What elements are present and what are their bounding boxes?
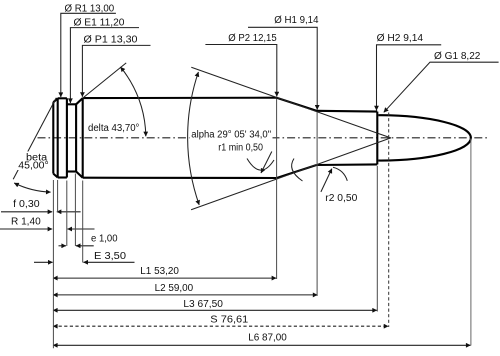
svg-text:45,00°: 45,00° [18,161,48,172]
alpha angle arc [188,72,200,205]
neck bottom [317,163,378,166]
svg-text:L1 53,20: L1 53,20 [140,266,179,277]
rim back face [66,98,68,177]
svg-text:L3 67,50: L3 67,50 [183,299,223,310]
ramp top [76,98,83,104]
L6 dimension [53,344,471,346]
r1 radius arc lower [292,159,303,182]
svg-text:L6 87,00: L6 87,00 [248,332,287,343]
E dimension [34,261,53,263]
svg-text:S 76,61: S 76,61 [210,315,248,326]
mask behind beta label [18,152,51,171]
bevel junction line [57,98,59,177]
ext groove end [74,174,76,247]
e dimension [59,245,67,247]
shoulder bottom [277,165,317,178]
body bottom [83,177,277,179]
svg-text:Ø P1 13,30: Ø P1 13,30 [84,35,138,46]
svg-text:e 1,00: e 1,00 [91,234,118,245]
R dimension [0,228,52,230]
body top [83,97,277,100]
H2 leader [377,45,442,111]
ext body start [82,181,84,263]
groove junction line [75,104,77,171]
bevel bottom [53,174,57,178]
delta angle arc [121,67,146,136]
ext neck start [316,112,318,296]
svg-text:E 3,50: E 3,50 [94,251,126,262]
svg-text:Ø G1 8,22: Ø G1 8,22 [434,51,481,62]
f dimension [1,211,52,213]
svg-text:L2 59,00: L2 59,00 [155,283,194,294]
svg-text:r1 min 0,50: r1 min 0,50 [218,143,263,154]
rim top [58,97,67,99]
ext bevel junction [57,180,59,212]
r2 radius arc [333,167,347,181]
svg-text:delta 43,70°: delta 43,70° [88,123,139,134]
ramp bottom [76,172,83,178]
r1 leader arrow [261,152,272,174]
bullet ogive [378,115,471,160]
R1 leader [61,13,116,97]
extension lines [53,99,471,348]
r2 leader arrow [321,169,332,192]
svg-text:Ø R1 13,00: Ø R1 13,00 [65,3,115,14]
shoulder top [277,98,317,111]
svg-text:Ø P2 12,15: Ø P2 12,15 [228,33,277,44]
L1 dimension [53,277,276,279]
ext rim back [66,181,68,247]
delta cone line [83,63,127,98]
svg-text:Ø H2 9,14: Ø H2 9,14 [377,33,424,44]
svg-text:R 1,40: R 1,40 [11,217,41,228]
G1 leader [384,62,499,112]
groove top [67,103,76,105]
svg-text:Ø E1 11,20: Ø E1 11,20 [74,18,125,29]
P1 leader [82,45,150,96]
head face [52,102,54,173]
alpha cone line top [191,67,390,138]
H1 leader [248,27,317,109]
svg-text:Ø H1 9,14: Ø H1 9,14 [274,15,319,26]
beta angle arc [14,183,50,192]
ext cone vertex S dashed [388,113,390,328]
groove bottom [67,170,76,172]
beta cone line [13,98,56,179]
case outline [53,98,471,178]
r1 radius arc [247,159,274,171]
ext case mouth [376,166,378,312]
mask behind alpha label [190,128,273,141]
alpha cone line bottom [191,138,391,210]
svg-text:f 0,30: f 0,30 [13,199,40,210]
E1 leader [70,28,139,103]
ext head face [52,180,54,348]
case mouth [376,112,378,165]
centerline axis [38,137,490,139]
P2 leader [205,45,276,97]
svg-text:alpha 29° 05' 34,0": alpha 29° 05' 34,0" [191,130,271,141]
body junction line [82,98,84,178]
L3 dimension [53,309,377,311]
ext shoulder start [276,99,278,279]
L2 dimension [53,294,317,296]
neck top [317,110,378,113]
bevel top [53,98,57,102]
S dimension [53,325,388,327]
rim bottom [58,176,67,178]
svg-text:r2 0,50: r2 0,50 [325,193,357,204]
ext bullet tip [470,139,472,346]
